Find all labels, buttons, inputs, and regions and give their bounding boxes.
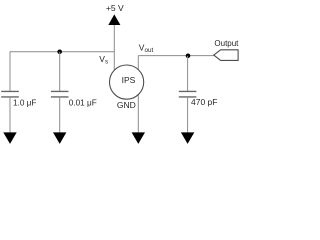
svg-text:+5 V: +5 V xyxy=(106,3,124,13)
wire left branch down xyxy=(9,51,11,91)
ground under IPS GND pin xyxy=(132,132,145,144)
junction node on Vout rail xyxy=(186,54,191,59)
junction node on Vs rail xyxy=(57,50,62,55)
+5V power symbol xyxy=(108,14,120,25)
wire +5V down to Vs node xyxy=(113,25,115,75)
output tag connector xyxy=(214,50,238,61)
ground under C3 xyxy=(181,132,194,144)
capacitor C1 1.0uF xyxy=(1,90,19,92)
IPS sensor circle U1 xyxy=(110,65,144,99)
capacitor C2 0.01uF xyxy=(51,90,69,92)
wire Vout horizontal rail xyxy=(138,55,214,57)
ground under C1 xyxy=(3,132,16,144)
wire middle branch down xyxy=(59,52,61,92)
svg-text:Output: Output xyxy=(214,39,239,48)
wire C3 branch down xyxy=(187,56,189,92)
wire Vout vertical from IPS xyxy=(137,56,139,75)
wire C3 to ground xyxy=(187,97,189,133)
wire C1 to ground xyxy=(9,97,11,133)
wire C2 to ground xyxy=(59,97,61,133)
wire IPS GND pin down xyxy=(137,90,139,133)
svg-text:1.0 μF: 1.0 μF xyxy=(13,99,36,108)
svg-text:GND: GND xyxy=(117,100,136,110)
svg-text:IPS: IPS xyxy=(122,75,136,85)
ground under C2 xyxy=(53,132,66,144)
wire Vs horizontal rail xyxy=(10,51,115,53)
capacitor C3 470pF xyxy=(179,90,197,92)
svg-text:470 pF: 470 pF xyxy=(191,97,217,107)
svg-text:0.01 μF: 0.01 μF xyxy=(69,99,97,108)
